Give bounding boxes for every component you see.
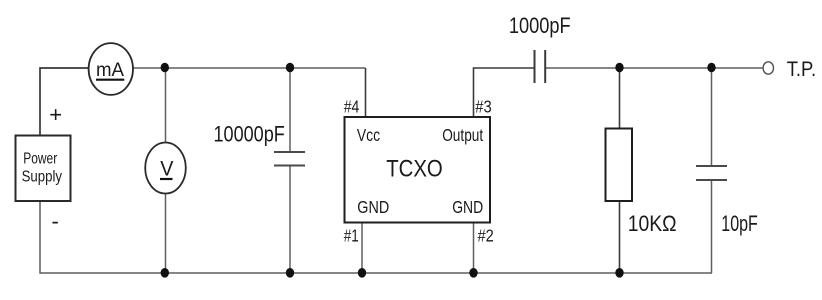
svg-text:TCXO: TCXO bbox=[386, 156, 443, 183]
wire capacitor C3 bottom bbox=[711, 180, 713, 273]
svg-text:Vcc: Vcc bbox=[357, 125, 380, 145]
svg-text:GND: GND bbox=[357, 197, 389, 217]
junction dot top at C3 tap bbox=[707, 63, 715, 73]
svg-text:#3: #3 bbox=[475, 96, 491, 116]
svg-text:10000pF: 10000pF bbox=[214, 121, 285, 146]
wire pin #3 up from TCXO and right to capacitor C2 bbox=[474, 68, 535, 117]
svg-text:-: - bbox=[52, 208, 59, 233]
op module TCXO U1 box bbox=[345, 117, 491, 223]
svg-text:Output: Output bbox=[442, 125, 483, 145]
svg-text:V: V bbox=[160, 156, 174, 180]
ammeter mA bbox=[89, 43, 133, 95]
junction dot top at resistor tap bbox=[615, 63, 623, 73]
wire capacitor C1 top bbox=[289, 68, 291, 152]
wire resistor R1 bottom bbox=[619, 201, 621, 273]
junction dot bottom voltmeter bbox=[161, 268, 169, 278]
wire capacitor C1 bottom bbox=[289, 166, 291, 274]
wire from power supply + up and right to ammeter bbox=[40, 68, 89, 136]
svg-text:Supply: Supply bbox=[22, 168, 62, 185]
svg-text:1000pF: 1000pF bbox=[509, 13, 571, 38]
svg-text:#2: #2 bbox=[478, 225, 494, 245]
wire from capacitor C2 to test point bbox=[546, 67, 764, 69]
wire pin #1 down to bus bbox=[361, 223, 363, 274]
wire capacitor C3 top bbox=[711, 68, 713, 166]
capacitor C3 10pF plates bbox=[696, 165, 727, 167]
svg-text:10KΩ: 10KΩ bbox=[628, 211, 677, 236]
svg-text:10pF: 10pF bbox=[721, 211, 758, 236]
svg-text:+: + bbox=[49, 102, 62, 127]
wire resistor R1 top bbox=[619, 68, 621, 129]
capacitor C1 10000pF plates bbox=[274, 151, 305, 153]
svg-text:GND: GND bbox=[452, 197, 483, 217]
svg-text:mA: mA bbox=[96, 59, 124, 81]
junction dot bottom pin #2 bbox=[469, 268, 477, 278]
wire from ammeter right to pin #4 corner bbox=[133, 67, 366, 69]
svg-text:T.P.: T.P. bbox=[787, 58, 816, 81]
power supply PS box bbox=[16, 136, 71, 202]
voltmeter V bbox=[145, 143, 186, 194]
bottom ground bus wire bbox=[40, 201, 712, 273]
svg-text:#1: #1 bbox=[344, 225, 359, 245]
wire pin #4 down into TCXO bbox=[365, 68, 367, 117]
junction dot bottom C1 bbox=[286, 268, 294, 278]
resistor R1 box bbox=[606, 129, 633, 202]
junction dot top at C1 tap bbox=[286, 63, 294, 73]
junction dot bottom pin #1 bbox=[358, 268, 366, 278]
wire pin #2 down to bus bbox=[473, 223, 475, 274]
svg-text:Power: Power bbox=[23, 151, 57, 168]
svg-text:#4: #4 bbox=[344, 96, 360, 116]
capacitor C2 1000pF plates bbox=[534, 50, 536, 83]
wire voltmeter bottom bbox=[165, 194, 167, 274]
test point terminal T.P. bbox=[763, 62, 773, 74]
junction dot top at voltmeter tap bbox=[161, 63, 169, 73]
junction dot bottom resistor bbox=[615, 268, 623, 278]
wire voltmeter top bbox=[165, 68, 167, 143]
